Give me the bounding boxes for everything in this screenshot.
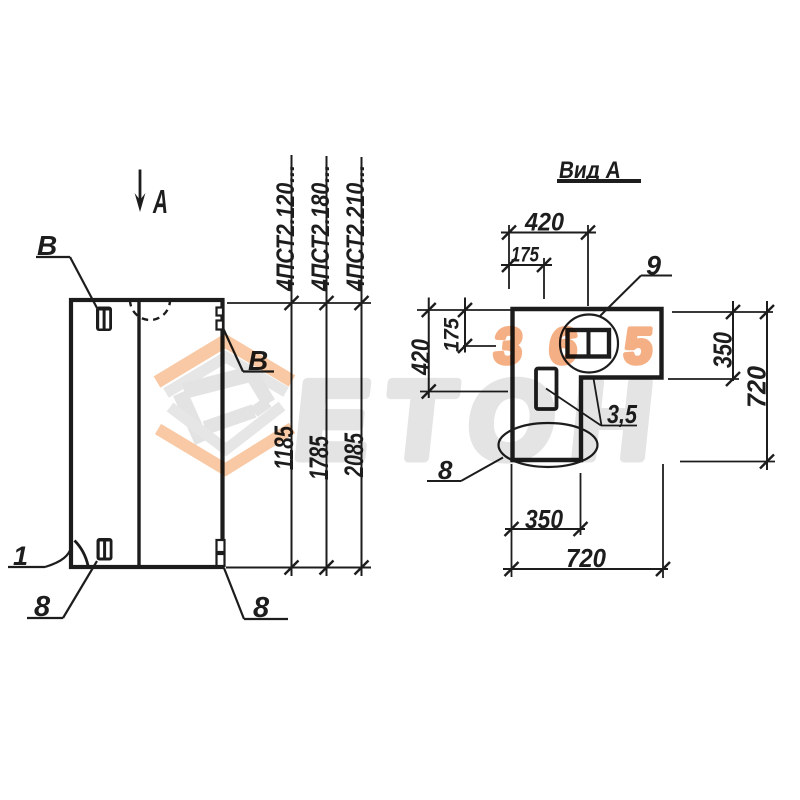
dim line 4PST2.180	[326, 156, 328, 576]
leader 9	[600, 276, 672, 317]
detail ellipse item 8	[499, 423, 598, 467]
svg-text:8: 8	[34, 591, 51, 623]
ext line 420 level	[420, 391, 508, 393]
svg-text:4ПСТ2.120...: 4ПСТ2.120...	[272, 165, 300, 292]
leader 8 bottom-left	[27, 561, 97, 618]
lifting loop bottom-left	[97, 538, 113, 561]
leader B mid-right	[223, 328, 274, 372]
slot opening	[536, 369, 557, 410]
title underline	[557, 179, 641, 183]
leader B top-left	[36, 257, 97, 308]
dim ticks bottom	[285, 561, 369, 575]
svg-text:175: 175	[441, 318, 464, 352]
ext lines below profile	[512, 464, 664, 578]
svg-text:6: 6	[547, 318, 580, 374]
svg-text:ЕТОН: ЕТОН	[289, 359, 658, 482]
svg-text:3: 3	[492, 318, 525, 374]
svg-text:8: 8	[253, 592, 270, 624]
watermark digits 365	[492, 318, 655, 374]
embedded plate top-right edge	[217, 308, 224, 330]
leader 1	[8, 548, 71, 567]
svg-text:4ПСТ2.210...: 4ПСТ2.210...	[342, 165, 370, 292]
dim ticks top	[285, 296, 369, 310]
dim line 720 bottom	[503, 568, 668, 570]
dim line 720 right	[766, 301, 768, 470]
dim line 420 left	[428, 298, 430, 399]
svg-text:1: 1	[13, 541, 28, 571]
svg-text:4ПСТ2.180...: 4ПСТ2.180...	[307, 165, 335, 292]
dim line 350 bottom	[505, 528, 585, 530]
section arrow A	[135, 170, 146, 213]
extension line top of length dims	[227, 302, 371, 304]
ext line 175 level	[463, 345, 496, 347]
watermark logo diamond	[157, 341, 292, 470]
svg-text:350: 350	[525, 504, 563, 534]
svg-text:В: В	[37, 230, 57, 261]
embedded plate item 9	[568, 330, 610, 357]
dim line 4PST2.120	[291, 155, 293, 576]
leader 8 bottom-right	[224, 568, 288, 619]
dim line 175 left	[464, 298, 466, 353]
leader 3,5	[546, 389, 637, 426]
section profile outline	[513, 309, 662, 460]
ext line top-left of profile	[417, 309, 511, 311]
panel outline	[71, 300, 223, 567]
ticks left dims	[422, 303, 472, 399]
panel mid joint line	[137, 300, 140, 567]
dim line 175 top	[501, 264, 552, 266]
extension line bottom of length dims	[226, 567, 371, 569]
ticks right dims	[726, 305, 774, 469]
leader 8 right view	[427, 458, 503, 482]
detail circle around plate	[560, 315, 618, 373]
hidden hole arc (dashed)	[130, 300, 170, 320]
lifting loop top-left	[96, 307, 112, 332]
ticks bottom dims	[505, 522, 671, 576]
ticks top dims	[502, 226, 595, 273]
svg-text:5: 5	[622, 318, 655, 374]
svg-text:175: 175	[511, 244, 539, 267]
ext lines right of profile	[668, 312, 775, 462]
dim line 4PST2.210	[361, 157, 363, 576]
weld leader from plate	[589, 352, 602, 426]
svg-text:350: 350	[708, 332, 738, 368]
dim line 350 right	[732, 301, 734, 381]
ext lines above profile	[509, 225, 588, 306]
svg-text:720: 720	[742, 365, 772, 408]
svg-text:720: 720	[566, 543, 606, 573]
svg-text:420: 420	[524, 209, 564, 237]
dim line 420 top	[501, 232, 596, 234]
corner washer detail bottom-left	[75, 541, 89, 566]
svg-text:9: 9	[646, 251, 661, 281]
embedded plate bottom-right edge	[217, 540, 225, 566]
svg-text:А: А	[152, 183, 168, 220]
